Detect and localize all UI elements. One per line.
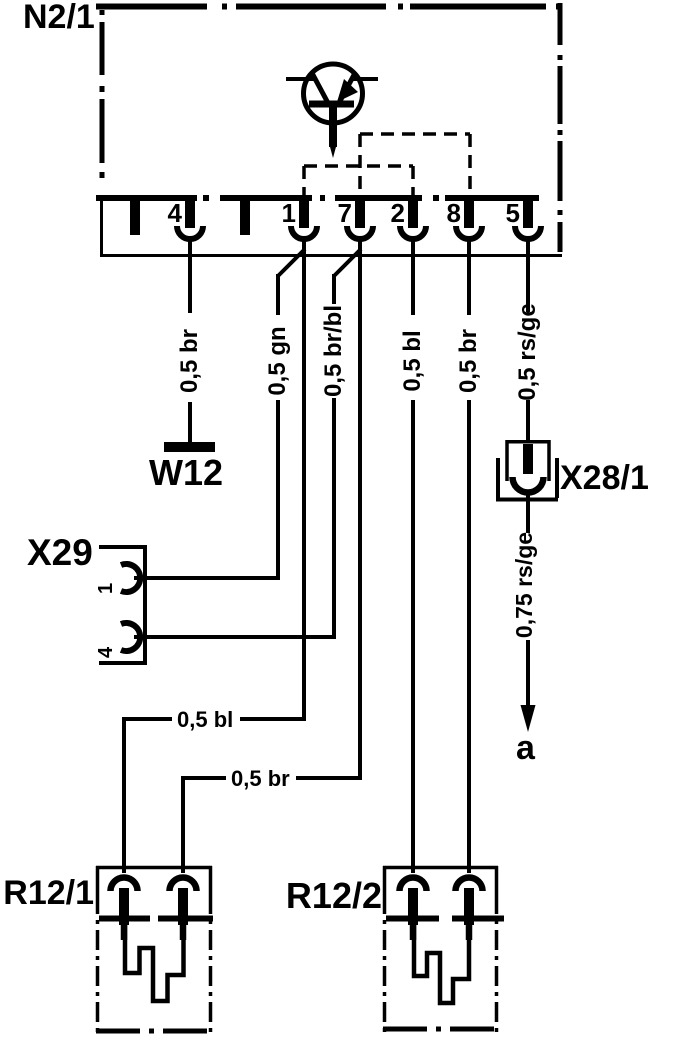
wire X28/1 down	[526, 490, 530, 533]
svg-text:0,5 br: 0,5 br	[231, 766, 290, 791]
connector X28/1 pin bar	[523, 444, 533, 474]
R12/2 left cup	[400, 878, 427, 892]
svg-text:W12: W12	[149, 452, 223, 493]
box R12/1 dash-dot sides	[98, 912, 211, 1034]
stub pin left	[130, 201, 140, 235]
svg-text:a: a	[516, 729, 536, 767]
wire pin5 to X28/1	[526, 400, 530, 441]
connector strip top line	[96, 195, 539, 201]
box R12/2 top	[383, 866, 498, 870]
wire pin4 to W12 lower	[188, 402, 192, 442]
pin 2	[391, 198, 426, 257]
svg-text:0,5 bl: 0,5 bl	[177, 707, 233, 732]
box R12/1 top	[96, 866, 212, 870]
box R12/2 bottom	[383, 1027, 498, 1032]
transistor arrowhead	[337, 79, 358, 102]
box N2/1 right border	[558, 3, 563, 252]
svg-text:5: 5	[506, 198, 520, 228]
svg-text:R12/2: R12/2	[286, 875, 382, 916]
transistor base bar	[309, 101, 354, 108]
dashed link pin1-pin2	[304, 166, 413, 196]
transistor stem tip	[330, 145, 337, 158]
wire pin2 to R12/2 left	[411, 400, 415, 873]
svg-text:0,5 br: 0,5 br	[176, 329, 203, 393]
ground W12 bar	[164, 442, 215, 452]
box N2/1 top border	[96, 4, 562, 10]
connector X29 cup 4	[121, 623, 140, 651]
wire 0,5 gn lower to X29 pin1	[134, 400, 278, 580]
wire pin8 upper	[467, 238, 471, 315]
svg-text:7: 7	[338, 198, 352, 228]
svg-text:R12/1: R12/1	[3, 874, 94, 912]
svg-text:0,5 bl: 0,5 bl	[399, 330, 426, 391]
R12/2 right pin bar	[464, 888, 474, 925]
wire X29 pin4 stem	[134, 635, 160, 639]
pin 4	[168, 198, 203, 257]
R12/2 right crossbar	[452, 916, 504, 922]
R12/2 left crossbar	[386, 916, 439, 922]
transistor left lead	[286, 77, 314, 81]
wire 0,5 br/bl upper	[332, 274, 336, 304]
pin 7	[338, 198, 373, 257]
transistor left diagonal	[312, 73, 328, 103]
svg-text:0,5 rs/ge: 0,5 rs/ge	[514, 303, 541, 400]
R12/1 right pin bar	[178, 888, 188, 925]
wire diagonal pin7 branch	[334, 249, 361, 276]
connector strip bottom line	[100, 254, 562, 257]
wire 0,5 gn upper	[276, 274, 280, 315]
box R12/1 bottom	[96, 1029, 212, 1034]
svg-text:1: 1	[95, 583, 117, 594]
R12/1 left crossbar	[99, 916, 150, 922]
wire pin7 vertical to 0,5 br	[358, 238, 362, 778]
wire pin8 to R12/2 right	[467, 400, 471, 873]
transistor right lead	[352, 77, 378, 81]
wire diagonal pin1 branch	[278, 249, 305, 276]
wire to terminal a	[526, 640, 530, 710]
wire X29 pin1 stem	[134, 576, 160, 580]
R12/1 left cup	[111, 878, 138, 892]
svg-text:0,5 br/bl: 0,5 br/bl	[320, 305, 347, 397]
box R12/2 solid sides	[385, 866, 497, 912]
pin 1	[282, 198, 317, 257]
connector strip left edge	[100, 201, 103, 257]
svg-text:4: 4	[95, 646, 117, 658]
R12/2 right cup	[456, 878, 483, 892]
arrowhead terminal a	[521, 705, 536, 732]
wire pin1 vertical to 0,5 bl	[302, 238, 306, 719]
dashed link pin7-pin8	[360, 134, 470, 196]
wire pin4 to W12 upper	[188, 238, 192, 313]
svg-text:N2/1: N2/1	[23, 0, 95, 36]
R12/1 right crossbar	[158, 916, 213, 922]
box N2/1 left border	[100, 10, 105, 178]
wire 0,5 bl horizontal left part	[124, 717, 304, 873]
svg-text:1: 1	[282, 198, 296, 228]
R12/1 right cup	[170, 878, 197, 892]
svg-text:4: 4	[168, 198, 183, 228]
transistor right diagonal	[339, 73, 355, 103]
svg-text:0,5 br: 0,5 br	[455, 329, 482, 393]
wire pin5 upper	[526, 238, 530, 312]
svg-text:8: 8	[447, 198, 461, 228]
wire 0,5 br horizontal left part	[183, 776, 360, 873]
svg-text:0,75 rs/ge: 0,75 rs/ge	[511, 532, 537, 638]
connector X28/1 outer bracket	[496, 458, 558, 500]
R12/2 left pin bar	[408, 888, 418, 925]
svg-text:X28/1: X28/1	[560, 459, 649, 497]
connector X29 bracket	[99, 545, 145, 665]
R12/1 heater element	[125, 919, 184, 1001]
svg-text:2: 2	[391, 198, 405, 228]
transistor stem	[329, 106, 337, 147]
pin 8	[447, 198, 482, 257]
R12/2 heater element	[414, 919, 469, 1003]
box R12/1 solid sides	[98, 866, 211, 912]
connector X29 cup 1	[121, 564, 140, 592]
svg-text:0,5 gn: 0,5 gn	[264, 326, 291, 395]
pin 5	[506, 198, 541, 257]
transistor symbol circle	[304, 64, 363, 123]
box R12/2 dash-dot sides	[385, 912, 497, 1032]
wire 0,5 br/bl lower to X29 pin4	[134, 398, 334, 639]
svg-text:X29: X29	[27, 532, 93, 573]
R12/1 left pin bar	[119, 888, 129, 925]
wire pin2 upper	[411, 238, 415, 315]
stub pin right	[240, 201, 250, 235]
connector X28/1 cup	[513, 477, 544, 493]
connector X28/1 inner bracket	[507, 442, 549, 481]
